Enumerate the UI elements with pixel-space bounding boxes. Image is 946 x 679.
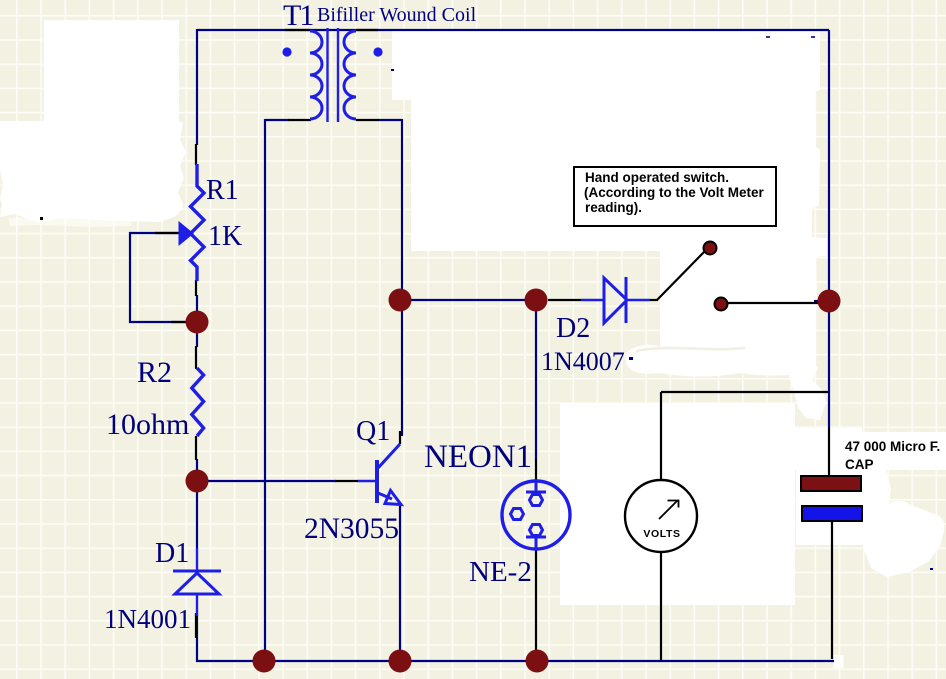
svg-text:1N4007: 1N4007 bbox=[541, 347, 625, 376]
svg-text:reading).: reading). bbox=[585, 200, 642, 215]
svg-text:D2: D2 bbox=[556, 313, 590, 344]
svg-text:NE-2: NE-2 bbox=[469, 556, 532, 588]
svg-text:10ohm: 10ohm bbox=[106, 408, 189, 441]
svg-text:Hand operated switch.: Hand operated switch. bbox=[585, 170, 729, 185]
svg-text:Bifiller Wound Coil: Bifiller Wound Coil bbox=[317, 4, 477, 26]
svg-text:(According to the Volt Meter: (According to the Volt Meter bbox=[584, 185, 764, 200]
svg-text:T1: T1 bbox=[283, 0, 313, 32]
svg-text:1N4001: 1N4001 bbox=[104, 604, 191, 634]
svg-text:2N3055: 2N3055 bbox=[304, 513, 399, 545]
svg-text:R1: R1 bbox=[206, 175, 239, 206]
svg-text:R2: R2 bbox=[137, 356, 172, 389]
svg-text:47 000 Micro F.: 47 000 Micro F. bbox=[845, 439, 940, 454]
svg-text:VOLTS: VOLTS bbox=[643, 528, 680, 540]
svg-text:Q1: Q1 bbox=[356, 416, 390, 447]
svg-text:1K: 1K bbox=[208, 221, 242, 252]
svg-text:CAP: CAP bbox=[845, 457, 874, 472]
svg-text:D1: D1 bbox=[155, 538, 189, 569]
svg-text:NEON1: NEON1 bbox=[424, 439, 532, 475]
